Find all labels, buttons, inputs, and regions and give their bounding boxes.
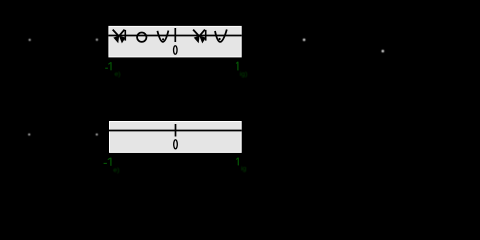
svg-text:e): e) <box>115 71 121 78</box>
marker U-dot M5 <box>215 30 227 42</box>
bottom panel box <box>110 122 242 153</box>
tick zero bottom <box>175 124 177 137</box>
dot P5 <box>28 133 30 135</box>
svg-text:e): e) <box>113 167 119 174</box>
dot P1 <box>29 39 31 41</box>
svg-text:ig: ig <box>241 166 247 173</box>
dot P6 <box>96 133 98 135</box>
axis label 1 bottom-right <box>236 158 246 173</box>
marker butterfly M1 <box>113 30 126 43</box>
dot P3 <box>303 39 306 42</box>
marker circle M2 <box>137 32 146 41</box>
top axis line <box>108 35 241 37</box>
dot P2 <box>96 39 98 41</box>
axis label -1 top-left <box>105 62 120 78</box>
label 0 bottom <box>174 140 178 149</box>
top panel box <box>109 26 241 57</box>
tick zero top <box>174 28 176 42</box>
label 0 top <box>174 46 178 55</box>
dot P4 <box>382 50 385 53</box>
bottom axis line <box>109 130 242 132</box>
svg-text:ig): ig) <box>240 71 248 78</box>
axis label 1 top-right <box>236 62 247 78</box>
marker butterfly M4 <box>193 30 206 43</box>
marker U-dot M3 <box>157 31 168 42</box>
axis label -1 bottom-left <box>104 158 120 174</box>
